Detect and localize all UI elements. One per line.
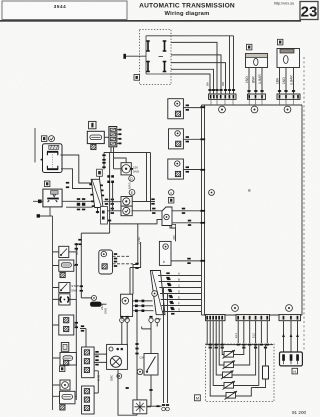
inline connector pins on drop wire <box>102 154 105 160</box>
connector strip bottom-left of computer <box>206 315 226 321</box>
connector strip top-middle of computer <box>248 94 266 99</box>
sensor2 wire to computer <box>171 260 201 262</box>
wires from computer bottom-left strip <box>207 321 222 344</box>
wire <box>171 42 217 94</box>
wire <box>171 69 214 94</box>
feed wire from left <box>126 55 146 57</box>
solenoid 3 <box>221 371 234 380</box>
circled pin on left edge <box>209 190 215 196</box>
fuse unit (4 fuses) <box>109 127 117 147</box>
wire to lamps from selector <box>104 201 122 203</box>
circled letter E <box>129 190 135 196</box>
wire (bottom edge extension) <box>171 74 210 94</box>
drop wires to bottom connectors <box>164 288 168 404</box>
ground rail drop from accessory switch <box>39 208 53 411</box>
stubs from main earth rail <box>53 252 61 396</box>
ignition switch contacts <box>47 152 58 169</box>
accessory switch contact bar <box>47 198 59 200</box>
wire drop <box>233 36 235 94</box>
selector internal diagonal <box>92 180 102 208</box>
feed wires down from fuse unit <box>104 147 151 233</box>
ignition switch box <box>43 144 63 173</box>
lamp 1 (selector position) <box>121 197 132 207</box>
dashed enclosure <box>206 344 275 402</box>
lamp feed verticals <box>147 153 151 211</box>
relay pins/wires down <box>249 68 262 95</box>
circled letter with ground <box>169 190 174 195</box>
ground below fuse holder <box>60 272 65 277</box>
label box on sensor 1 <box>172 224 176 228</box>
relay top band <box>280 49 294 53</box>
center link dash <box>159 56 164 58</box>
wire: switch to selector <box>61 169 92 189</box>
relay body <box>277 49 300 68</box>
accessory switch box <box>43 189 62 207</box>
selector bottom drop <box>97 208 99 214</box>
motor feed wires <box>114 153 127 169</box>
circled pin on connector <box>152 291 158 297</box>
label box (instrument feed) <box>89 121 96 128</box>
wiper-type motor <box>60 380 70 390</box>
ground below fuse box <box>91 144 96 149</box>
circled pin <box>137 369 143 375</box>
top pin bus <box>206 344 273 346</box>
relay pins/wires down <box>280 68 294 95</box>
label box B <box>42 136 47 142</box>
pins below bus <box>209 347 268 349</box>
computer unit box top edge <box>202 104 303 106</box>
dashed enclosure <box>140 30 172 85</box>
solenoid 1 <box>223 350 236 359</box>
solenoid 2 <box>223 361 236 370</box>
pins above strip <box>208 89 235 91</box>
circled symbol <box>49 136 55 142</box>
drop from inline connector <box>112 183 114 211</box>
connector label box <box>292 368 298 374</box>
switch drop to joint <box>147 375 151 407</box>
fuse holder box <box>59 260 74 271</box>
solenoid 5 <box>225 391 238 400</box>
wire from terminal <box>102 303 107 305</box>
small connector box above selector <box>97 169 103 176</box>
relay top band <box>246 54 268 58</box>
circled connector number <box>286 305 293 312</box>
selector pins right <box>100 185 104 197</box>
contact pair lower-right <box>163 62 167 72</box>
wire drop <box>229 36 231 94</box>
ballast resistor <box>263 366 269 379</box>
joint wire right <box>147 405 162 407</box>
tick pins on computer left edge <box>200 106 205 261</box>
accessory switch hatched block <box>51 191 59 197</box>
wire <box>171 55 221 94</box>
socket stubs <box>113 256 134 264</box>
relay winding oval <box>254 58 258 65</box>
rail from lamps down <box>81 233 109 298</box>
motor circle <box>122 165 130 173</box>
switch box <box>144 354 158 376</box>
double fuse box <box>59 315 74 335</box>
connector strip bottom-right of computer <box>279 315 301 321</box>
stop switch box <box>59 246 69 257</box>
contact pair upper-left <box>146 41 150 51</box>
label box <box>60 366 65 372</box>
link sensor1 to sensor2 <box>170 226 176 242</box>
resistor feed <box>251 345 265 388</box>
wire from sensor harness to joint <box>136 312 138 400</box>
page number box 23 <box>300 2 318 20</box>
connector strip top-right of computer <box>277 94 300 99</box>
feed drops to solenoids <box>210 345 226 396</box>
7 harness wires fanning to computer <box>158 276 201 312</box>
fuse element <box>90 135 102 140</box>
wire: switch to selector illumination <box>61 155 92 183</box>
sensor1 lower wire to computer <box>172 222 201 224</box>
sensor1 wire to computer <box>172 210 201 212</box>
circled connector number <box>251 106 258 113</box>
switch inner box <box>146 36 171 74</box>
long feed wire <box>34 128 36 163</box>
computer unit box bottom edge <box>202 314 303 316</box>
wires from computer bottom-right strip <box>284 321 298 352</box>
contact pair upper-right <box>163 41 167 51</box>
fusebox link wire <box>104 136 109 138</box>
accessory rail <box>75 243 77 400</box>
terminal circles from above <box>120 318 124 322</box>
fuse box 3 <box>60 391 76 404</box>
pins above strip1 <box>81 325 84 331</box>
selector body (skewed) <box>91 179 103 207</box>
motor box <box>121 163 131 175</box>
connector strip top-left of computer <box>209 94 237 99</box>
ignition switch top hatched block <box>49 145 59 149</box>
left pin tick <box>41 159 43 161</box>
connector strip 1 <box>82 347 95 378</box>
strip-to-box stubs <box>211 99 294 105</box>
wire left of selector <box>77 198 80 204</box>
contact pair lower-left <box>146 62 150 72</box>
dashed boundary wire <box>303 57 305 350</box>
wire labels on harness <box>178 272 180 312</box>
connector body <box>280 352 303 366</box>
computer unit box right edge <box>301 105 303 315</box>
circled connector number <box>219 106 226 113</box>
label box B <box>278 39 283 45</box>
fuse box <box>87 131 104 143</box>
circled letter D <box>129 176 135 182</box>
small relay box <box>61 343 69 352</box>
wires from computer bottom-middle strip <box>238 321 267 343</box>
lighter / cigar socket <box>59 294 70 305</box>
feed terminal blob <box>123 54 126 59</box>
bulb with cross <box>110 356 121 367</box>
speed sensor unit <box>121 294 133 316</box>
selector pins left <box>89 184 94 207</box>
lamp2 wire right into computer <box>132 210 162 212</box>
label box A <box>247 44 252 50</box>
inline connector squares <box>107 175 114 183</box>
ground <box>60 405 65 410</box>
cluster box <box>107 344 128 369</box>
drop wires from lamp area to connector <box>130 224 141 294</box>
stub wire with terminal on left <box>33 200 92 202</box>
relay winding oval <box>284 56 289 64</box>
connector strip 2 <box>82 386 95 414</box>
slanted inline connector <box>150 271 165 315</box>
brake switch box <box>59 283 70 293</box>
four-way joint box <box>133 400 147 414</box>
earth box B <box>169 129 184 149</box>
sensor-to-connector wires with connector squares <box>133 301 154 311</box>
solenoid 4 <box>223 381 236 390</box>
connector strip bottom-middle of computer <box>236 315 270 321</box>
fuse unit output stubs <box>117 130 122 144</box>
lamp 2 (selector position) <box>121 206 132 216</box>
wire lamp2 feed <box>66 207 121 211</box>
header part-number box 3544 <box>2 1 127 20</box>
header rule <box>0 20 301 22</box>
battery + terminal connector (black) <box>90 302 102 307</box>
computer unit box left edge (double line) <box>202 105 205 315</box>
relay body <box>246 54 268 68</box>
earth box C <box>168 159 184 179</box>
long wire from lamps area <box>110 220 162 224</box>
direction arrows <box>282 334 299 337</box>
label box M at lower left of solenoid unit <box>195 395 201 401</box>
wire (top edge extension) <box>171 35 234 37</box>
return wires right of solenoids <box>232 345 259 396</box>
circled connector number <box>284 106 291 113</box>
circled connector number <box>232 305 239 312</box>
small junction box left of lamps <box>101 207 108 225</box>
wire <box>171 63 226 94</box>
fuse box 2 <box>60 353 76 366</box>
label box D <box>45 181 50 187</box>
lamp1 wire right <box>132 201 155 203</box>
diagnostic socket box <box>99 250 113 274</box>
earth box A <box>168 99 184 119</box>
junction dots on feed wires <box>66 182 69 188</box>
sensor 2 box <box>159 241 171 265</box>
motor pin <box>131 168 134 170</box>
sensor 1 box <box>162 207 172 226</box>
label box C <box>134 75 139 81</box>
cluster drop wire <box>118 369 137 415</box>
